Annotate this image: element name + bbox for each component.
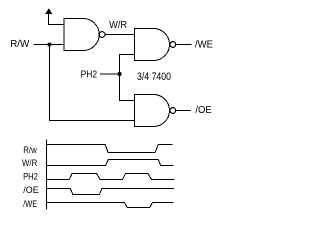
wire arrow corner to gate1 input A (49, 24, 65, 26)
svg-text:3/4 7400: 3/4 7400 (137, 71, 171, 83)
svg-text:PH2: PH2 (81, 69, 98, 80)
op NAND gate U1a (64, 19, 105, 51)
wire down-corner to gate3 input B (49, 120, 135, 122)
node junction PH2 (118, 72, 122, 76)
wire R/W junction down (49, 45, 51, 121)
waveform PH2 (47, 174, 175, 180)
svg-text:/OE: /OE (195, 105, 212, 116)
waveform /OE (47, 189, 175, 195)
svg-text:/WE: /WE (195, 39, 213, 50)
arrow up (to R/W source) (45, 8, 52, 25)
svg-text:W/R: W/R (109, 20, 127, 31)
wire to gate3 input A (120, 100, 135, 102)
wire PH2 vertical (119, 54, 121, 101)
svg-text:PH2: PH2 (23, 172, 38, 183)
svg-text:R/w: R/w (23, 145, 37, 156)
timing axis (46, 139, 48, 209)
svg-text:R/W: R/W (10, 39, 30, 50)
waveform /WE (47, 203, 174, 208)
wire to gate2 input B (120, 54, 135, 56)
wire gate3 output (176, 110, 191, 112)
waveform R/w (47, 145, 173, 153)
wire R/W to gate1 input B (34, 44, 65, 46)
op NAND gate U1b (135, 29, 176, 61)
node junction R/W (48, 43, 52, 47)
svg-text:/OE: /OE (23, 185, 38, 196)
waveform W/R (47, 160, 174, 166)
op NAND gate U1c (135, 95, 176, 127)
wire gate2 output (176, 44, 192, 46)
wire gate1 output to gate2 input A (105, 34, 135, 36)
svg-text:W/R: W/R (22, 158, 37, 169)
svg-text:/WE: /WE (23, 199, 37, 210)
wire PH2 (100, 73, 120, 75)
